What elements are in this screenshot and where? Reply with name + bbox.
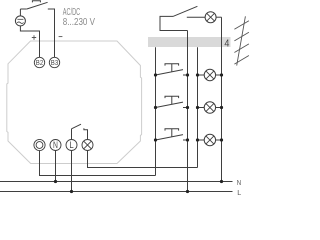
top switch S2 blade (173, 6, 197, 16)
wire lamp E1 to return (216, 16, 221, 18)
switch S1 actuator cap (32, 1, 40, 3)
L bus (0, 191, 233, 193)
wire A1 to switch bus (40, 151, 156, 176)
lamp E4 stubs (198, 139, 222, 141)
device outline (7, 41, 142, 164)
terminal L (66, 140, 77, 151)
wire source top to switch (19, 9, 21, 16)
lamp E3 stubs (198, 107, 222, 109)
push button S5 (156, 129, 188, 140)
push button S4 (156, 96, 188, 107)
svg-text:B3: B3 (51, 58, 58, 67)
svg-text:B2: B2 (36, 58, 43, 67)
svg-text:8...230 V: 8...230 V (63, 17, 95, 28)
wire L terminal to L bus (71, 151, 73, 192)
lamp E3 (204, 102, 215, 113)
top switch S2 feed (160, 16, 188, 30)
wall hatching (234, 16, 249, 65)
lamp E2 (204, 69, 215, 80)
push button S3 (156, 64, 188, 75)
wire switch to B3 (48, 9, 55, 57)
terminal N (50, 140, 61, 151)
source DC bar (17, 18, 23, 20)
source AC wave (17, 22, 23, 24)
top switch S2 fixed contact (187, 16, 205, 18)
svg-text:L: L (237, 188, 241, 197)
lamp return vertical (221, 17, 223, 181)
terminal B3 (49, 57, 59, 67)
minus label (59, 36, 63, 38)
lamp E4 (204, 134, 215, 145)
wire source bottom to B2 (20, 26, 39, 57)
lamp feed vertical (197, 47, 199, 167)
switch bus vertical (155, 47, 157, 175)
svg-text:L: L (69, 140, 73, 150)
terminal lamp output (82, 140, 93, 151)
lamp E2 stubs (198, 74, 222, 76)
terminal A1 (control in) (34, 139, 45, 150)
relay contact K1 (72, 124, 88, 139)
svg-text:N: N (237, 178, 241, 187)
switch S1 blade (27, 2, 48, 9)
L riser vertical (187, 31, 189, 192)
AC/DC source U1 (15, 16, 25, 26)
svg-text:4: 4 (224, 37, 229, 49)
switch S1 left terminal (20, 8, 26, 10)
plus label (32, 35, 36, 39)
wall duct band (148, 37, 231, 47)
wire lamp output to lamp feed (88, 151, 198, 168)
lamp E1 (205, 12, 216, 23)
N bus (0, 181, 233, 183)
terminal B2 (34, 57, 44, 67)
wire N terminal to N bus (55, 151, 57, 182)
svg-text:N: N (53, 140, 58, 150)
